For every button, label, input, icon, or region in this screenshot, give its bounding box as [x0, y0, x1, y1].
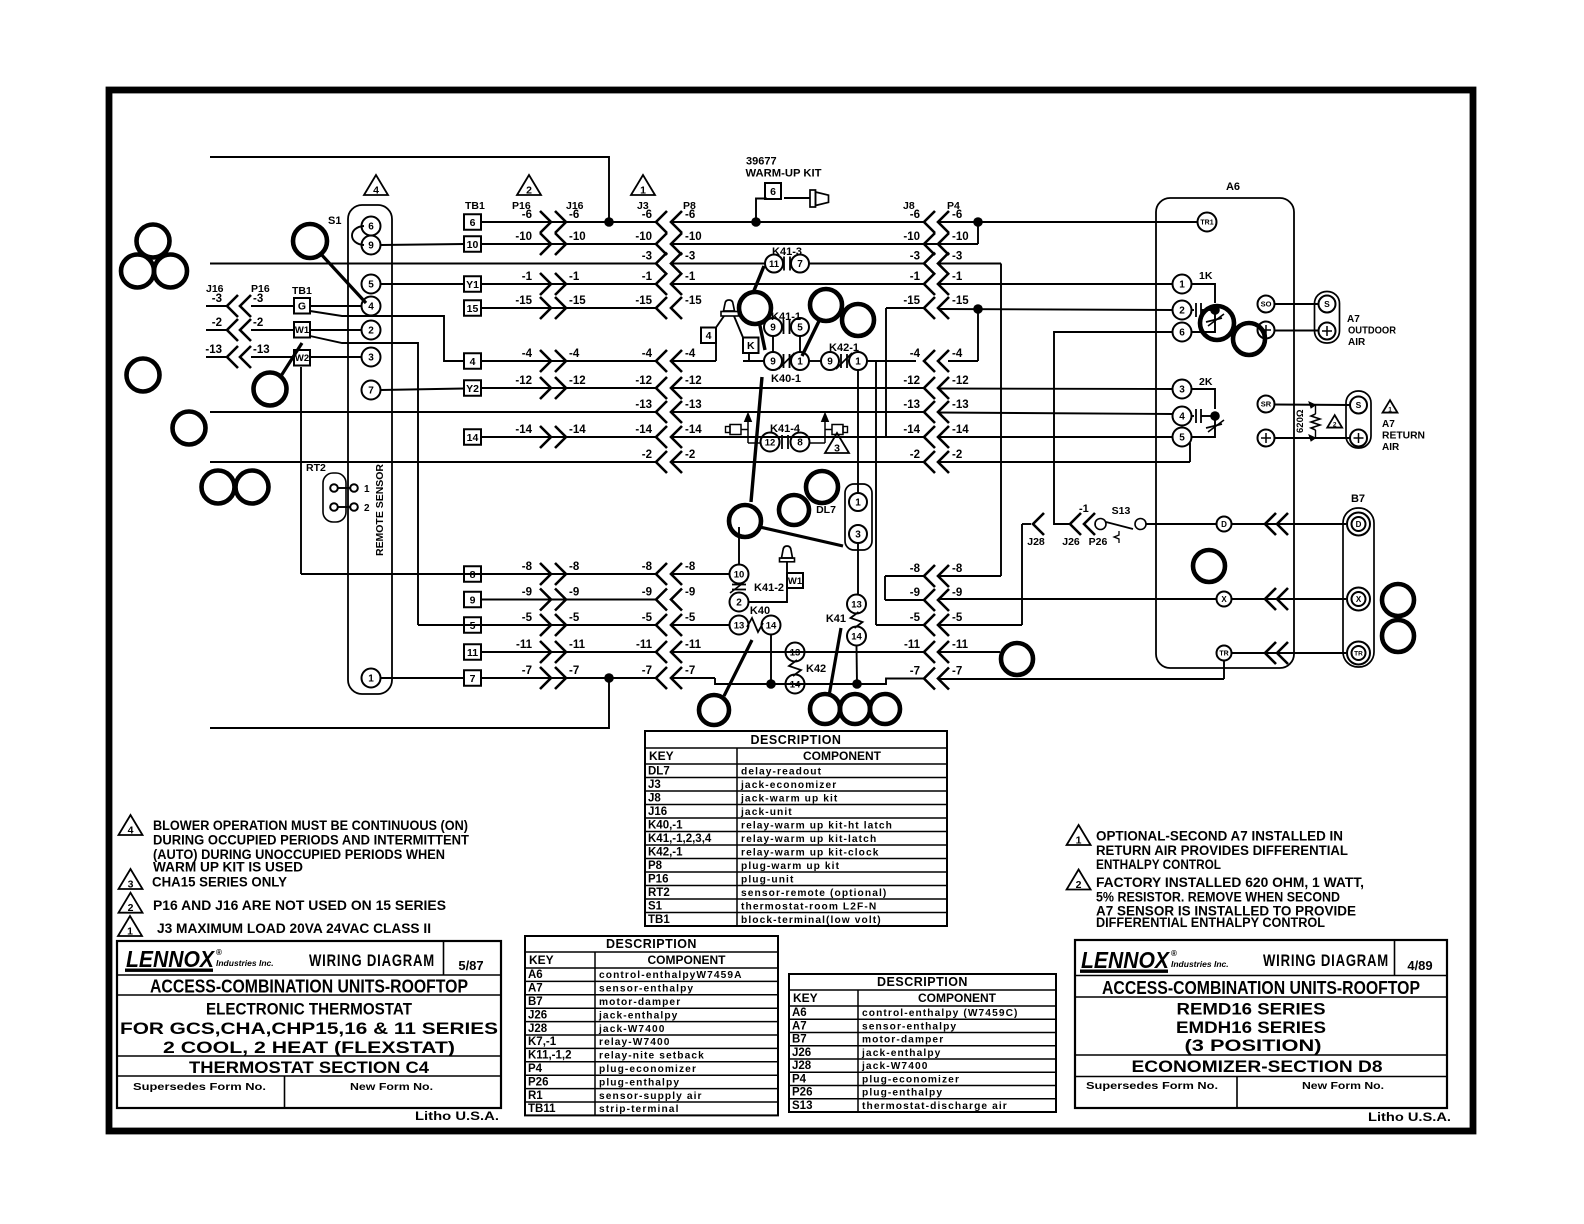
svg-text:plug-unit: plug-unit: [741, 874, 794, 885]
svg-text:-11: -11: [685, 639, 702, 651]
note triangle 3: [119, 869, 143, 889]
svg-text:K11,-1,2: K11,-1,2: [528, 1050, 571, 1062]
callout circle o: [729, 505, 761, 537]
svg-text:BLOWER OPERATION MUST BE CONTI: BLOWER OPERATION MUST BE CONTINUOUS (ON): [153, 818, 468, 833]
svg-text:-5: -5: [642, 612, 653, 624]
svg-text:S1: S1: [648, 900, 663, 912]
svg-text:DESCRIPTION: DESCRIPTION: [606, 937, 697, 951]
svg-text:(3 POSITION): (3 POSITION): [1185, 1036, 1322, 1055]
svg-text:DESCRIPTION: DESCRIPTION: [751, 733, 842, 747]
callout circle v: [1200, 306, 1234, 340]
callout circle x: [1382, 584, 1414, 616]
callout pointer j to K40-1 9: [759, 321, 765, 350]
connector J16/P16 row -3 left: [206, 305, 227, 307]
TB1 box 5: [464, 617, 481, 633]
svg-text:4: 4: [470, 356, 476, 368]
connector J3/P8 row -8: [656, 563, 667, 585]
callout circle f: [202, 471, 235, 504]
A6 terminal plus return: [1258, 430, 1275, 447]
svg-text:-10: -10: [635, 231, 652, 243]
node junction K41-14 on bus: [852, 679, 862, 689]
wire row -5: [418, 624, 656, 626]
wire row -9: [481, 599, 656, 601]
K41-4 left bracket wire: [741, 429, 748, 431]
TB1 box Y1: [464, 276, 481, 292]
TB1 box Y2: [464, 380, 481, 396]
svg-text:sensor-supply air: sensor-supply air: [599, 1091, 703, 1102]
svg-text:1: 1: [1076, 835, 1082, 847]
svg-text:2: 2: [736, 598, 742, 609]
svg-text:-13: -13: [253, 344, 270, 356]
svg-text:B7: B7: [528, 996, 543, 1008]
svg-text:THERMOSTAT SECTION C4: THERMOSTAT SECTION C4: [189, 1058, 430, 1077]
svg-text:-8: -8: [910, 563, 921, 575]
note triangle 2: [119, 893, 143, 913]
S1 terminal 7: [362, 381, 381, 400]
delay readout DL7 outline: [845, 484, 872, 550]
svg-text:K41,-1,2,3,4: K41,-1,2,3,4: [648, 833, 712, 845]
svg-text:relay-nite setback: relay-nite setback: [599, 1051, 705, 1062]
svg-text:ELECTRONIC THERMOSTAT: ELECTRONIC THERMOSTAT: [206, 1000, 413, 1019]
wire row -4: [481, 360, 656, 362]
svg-text:1: 1: [1388, 407, 1392, 414]
svg-text:-7: -7: [642, 665, 652, 677]
wire -7 right to TR: [938, 678, 1224, 680]
svg-text:620Ω: 620Ω: [1295, 409, 1306, 433]
svg-text:-11: -11: [516, 639, 533, 651]
svg-text:G: G: [298, 301, 306, 313]
svg-text:TB11: TB11: [528, 1103, 556, 1115]
svg-text:J26: J26: [1062, 536, 1080, 548]
svg-text:COMPONENT: COMPONENT: [918, 991, 997, 1005]
svg-text:-15: -15: [952, 295, 969, 307]
svg-text:15: 15: [467, 303, 479, 315]
A6 terminal TR1: [1198, 213, 1217, 232]
connector J16/P16 row -2 left: [206, 329, 227, 331]
svg-text:5: 5: [797, 323, 803, 334]
wire -8 stub J8: [885, 575, 924, 577]
A6 terminal 5: [1173, 428, 1192, 447]
TB1 box 11: [464, 644, 481, 660]
RT2 pin 2: [330, 503, 338, 511]
relay K40: [730, 616, 749, 635]
wire TR to B7: [1232, 652, 1347, 654]
svg-text:P26: P26: [792, 1087, 812, 1099]
svg-text:1: 1: [855, 498, 861, 509]
svg-text:-6: -6: [642, 209, 652, 221]
svg-text:Litho U.S.A.: Litho U.S.A.: [1368, 1112, 1451, 1124]
connector J8/P4 row -13: [924, 401, 935, 423]
svg-text:-8: -8: [522, 561, 533, 573]
wire -9 right to X: [938, 598, 1216, 600]
relay contact K41-1: [764, 318, 782, 336]
wire row -12: [481, 387, 656, 389]
svg-text:-13: -13: [685, 399, 702, 411]
callout pointer to S1-4: [320, 253, 366, 303]
connector J3/P8 row -3: [656, 253, 667, 275]
svg-text:-4: -4: [910, 348, 921, 360]
svg-text:B7: B7: [792, 1034, 807, 1046]
svg-text:-9: -9: [910, 587, 920, 599]
svg-text:jack-enthalpy: jack-enthalpy: [598, 1010, 678, 1021]
svg-text:A7: A7: [1347, 314, 1360, 325]
svg-text:7: 7: [797, 259, 803, 270]
wire S1-1 to TB1-7: [381, 677, 465, 679]
svg-text:DESCRIPTION: DESCRIPTION: [877, 975, 968, 989]
bell mid: [782, 546, 793, 558]
connector P16/J16 row -7: [540, 667, 551, 689]
svg-text:DL7: DL7: [816, 504, 836, 516]
svg-text:ENTHALPY CONTROL: ENTHALPY CONTROL: [1096, 857, 1221, 872]
connector J3/P8 row -14: [656, 426, 667, 448]
wire -15/-14 link: [885, 308, 887, 437]
TB1 box 6: [464, 214, 481, 230]
warning triangle 1 return: [1383, 400, 1398, 412]
wire -3 drop to -8: [1000, 264, 1002, 577]
plug P8 connector glyph: [784, 197, 810, 199]
svg-text:J28: J28: [1027, 536, 1045, 548]
svg-text:-2: -2: [642, 449, 652, 461]
svg-text:TR: TR: [1354, 650, 1363, 657]
svg-text:K42-1: K42-1: [829, 342, 859, 354]
svg-text:S: S: [1356, 400, 1362, 410]
svg-text:4/89: 4/89: [1407, 958, 1432, 973]
wire W1 to TB1-5 route: [310, 336, 418, 625]
svg-text:motor-damper: motor-damper: [862, 1035, 944, 1046]
connector P16/J16 row -14: [540, 426, 551, 448]
svg-text:6: 6: [770, 186, 776, 198]
table description left economizer: [525, 936, 778, 1115]
svg-text:-14: -14: [515, 424, 532, 436]
svg-text:-3: -3: [685, 251, 695, 263]
S1 terminal 2: [362, 321, 381, 340]
B7 terminal TR: [1347, 642, 1370, 665]
svg-text:-7: -7: [522, 665, 532, 677]
svg-text:2: 2: [368, 326, 374, 337]
svg-text:39677: 39677: [746, 156, 777, 168]
outer border frame: [109, 90, 1473, 1131]
wire row -1: [481, 283, 656, 285]
svg-text:delay-readout: delay-readout: [741, 766, 822, 777]
svg-text:WIRING DIAGRAM: WIRING DIAGRAM: [1263, 952, 1389, 970]
connector B7 TR: [1265, 642, 1276, 664]
svg-text:J3: J3: [648, 779, 661, 791]
svg-text:5/87: 5/87: [458, 958, 483, 973]
sensor A7 outdoor outline: [1315, 292, 1340, 344]
svg-text:-7: -7: [685, 665, 695, 677]
svg-text:-15: -15: [569, 295, 586, 307]
svg-text:ACCESS-COMBINATION UNITS-ROOFT: ACCESS-COMBINATION UNITS-ROOFTOP: [1102, 977, 1420, 998]
svg-text:-13: -13: [903, 399, 920, 411]
S1 terminal 3: [362, 348, 381, 367]
svg-text:-2: -2: [952, 449, 962, 461]
svg-text:X: X: [1356, 595, 1362, 604]
warning triangle 2 top: [517, 175, 541, 195]
svg-text:14: 14: [851, 631, 862, 642]
svg-text:J3 MAXIMUM LOAD 20VA 24VAC CLA: J3 MAXIMUM LOAD 20VA 24VAC CLASS II: [157, 921, 431, 936]
connector J8/P4 row -1: [924, 273, 935, 295]
svg-text:9: 9: [827, 357, 833, 368]
svg-text:A6: A6: [792, 1007, 807, 1019]
plug P8 box 6: [765, 183, 781, 199]
svg-text:®: ®: [216, 948, 222, 957]
svg-text:block-terminal(low volt): block-terminal(low volt): [741, 915, 882, 926]
svg-text:4: 4: [373, 185, 379, 197]
svg-text:-8: -8: [685, 561, 696, 573]
thermostat S1 outline: [348, 205, 392, 694]
svg-text:K41: K41: [826, 613, 846, 625]
svg-text:W2: W2: [295, 353, 309, 364]
TB1 box W1: [294, 322, 310, 338]
callout pointer to K40: [724, 640, 752, 696]
svg-text:-1: -1: [569, 271, 580, 283]
callout circle b: [121, 255, 154, 288]
connector J8/P4 row -14: [924, 426, 935, 448]
jack J28: [1022, 523, 1031, 525]
S1 terminal 4: [362, 297, 381, 316]
wire plus to A7: [1275, 330, 1319, 332]
svg-text:-10: -10: [515, 231, 532, 243]
svg-text:-10: -10: [952, 231, 969, 243]
svg-text:9: 9: [368, 241, 374, 252]
table description thermostat: [645, 731, 947, 926]
svg-text:TR: TR: [1219, 651, 1228, 658]
connector J3/P8 row -2: [656, 451, 667, 473]
wire row -8: [301, 573, 656, 575]
svg-text:-11: -11: [952, 639, 969, 651]
S1 terminal 1: [362, 669, 381, 688]
svg-text:1: 1: [127, 926, 133, 938]
B7 terminal D: [1347, 513, 1370, 536]
svg-text:K41-3: K41-3: [772, 246, 802, 258]
svg-text:thermostat-discharge air: thermostat-discharge air: [862, 1101, 1008, 1112]
svg-text:J16: J16: [648, 806, 667, 818]
svg-text:-1: -1: [685, 271, 696, 283]
svg-text:Industries Inc.: Industries Inc.: [1171, 959, 1229, 969]
svg-text:K: K: [747, 340, 755, 352]
connector J3/P8 row -5: [656, 614, 667, 636]
svg-text:-13: -13: [952, 399, 969, 411]
svg-text:2 COOL, 2 HEAT (FLEXSTAT): 2 COOL, 2 HEAT (FLEXSTAT): [163, 1038, 455, 1057]
connector J8/P4 row -3: [924, 253, 935, 275]
connector P16/J16 row -9: [540, 589, 551, 611]
svg-text:-2: -2: [910, 449, 920, 461]
S1 6-9 link arc: [352, 226, 364, 245]
warning triangle 1 top: [631, 175, 655, 195]
svg-text:DIFFERENTIAL ENTHALPY CONTROL: DIFFERENTIAL ENTHALPY CONTROL: [1096, 915, 1325, 930]
svg-text:5% RESISTOR. REMOVE WHEN SECON: 5% RESISTOR. REMOVE WHEN SECOND: [1096, 890, 1340, 905]
svg-text:-14: -14: [569, 424, 586, 436]
svg-text:WARM-UP KIT: WARM-UP KIT: [746, 168, 822, 180]
title block right: [1075, 940, 1447, 1108]
svg-text:jack-economizer: jack-economizer: [740, 780, 837, 791]
svg-text:J28: J28: [792, 1060, 812, 1072]
svg-text:AIR: AIR: [1382, 442, 1400, 453]
A6 terminal SO: [1258, 296, 1275, 313]
svg-text:1: 1: [364, 484, 370, 495]
wire row -6: [481, 221, 656, 223]
relay contact K40-1: [764, 352, 782, 370]
svg-text:LENNOX: LENNOX: [126, 946, 216, 972]
svg-text:13: 13: [790, 647, 801, 658]
svg-text:K40-1: K40-1: [771, 373, 801, 385]
svg-text:-9: -9: [642, 587, 652, 599]
svg-text:6: 6: [1179, 328, 1185, 339]
A6 terminal D: [1217, 517, 1232, 532]
wire -4 riser to -15: [977, 309, 979, 361]
svg-text:S1: S1: [328, 215, 341, 227]
callout circle j: [739, 292, 771, 324]
svg-text:-7: -7: [952, 666, 962, 678]
svg-text:-4: -4: [642, 348, 653, 360]
svg-text:WIRING DIAGRAM: WIRING DIAGRAM: [309, 952, 435, 970]
wire S13 to D: [1146, 523, 1217, 525]
connector J3/P8 row -9: [656, 589, 667, 611]
svg-text:-11: -11: [636, 639, 653, 651]
svg-text:K41-2: K41-2: [754, 582, 784, 594]
connector P16/J16 row -11: [540, 641, 551, 663]
svg-text:-12: -12: [635, 375, 652, 387]
svg-text:-15: -15: [515, 295, 532, 307]
callout circle c: [154, 255, 187, 288]
TB1 box 7: [464, 670, 481, 686]
svg-text:relay-warm up kit-clock: relay-warm up kit-clock: [741, 847, 880, 858]
callout pointer to DL7: [760, 527, 843, 546]
wire K42-1 to DL7: [857, 370, 859, 493]
wire -4/-5 link vertical: [875, 361, 877, 625]
DL7 terminal 3: [849, 525, 867, 543]
svg-text:-4: -4: [569, 348, 580, 360]
callout circle k: [810, 289, 842, 321]
svg-text:7: 7: [470, 673, 476, 685]
connector J3/P8 row -13: [656, 401, 667, 423]
wire box6 to junction: [756, 199, 767, 223]
B7 terminal X: [1347, 588, 1370, 611]
TB1 box 10: [464, 236, 481, 252]
svg-text:9: 9: [470, 594, 476, 606]
svg-text:7: 7: [368, 386, 374, 397]
svg-text:3: 3: [128, 879, 134, 891]
wire row -14: [481, 436, 656, 438]
svg-text:-9: -9: [522, 587, 532, 599]
svg-text:1K: 1K: [1199, 270, 1213, 282]
svg-text:P4: P4: [792, 1073, 807, 1085]
node junction K40-14 on bus: [766, 679, 776, 689]
svg-text:-3: -3: [212, 293, 222, 305]
wire X to B7: [1232, 598, 1347, 600]
svg-text:TB1: TB1: [648, 914, 670, 926]
connector P16/J16 row -4: [540, 350, 551, 372]
svg-text:S13: S13: [792, 1100, 812, 1112]
svg-text:2: 2: [128, 902, 134, 914]
svg-text:K7,-1: K7,-1: [528, 1036, 557, 1048]
wire K41-2 upper stub: [738, 527, 740, 564]
svg-text:10: 10: [467, 239, 479, 251]
svg-text:Supersedes Form No.: Supersedes Form No.: [1086, 1080, 1218, 1092]
svg-text:10: 10: [734, 569, 745, 580]
svg-text:9: 9: [770, 357, 776, 368]
wire row -13: [210, 411, 656, 413]
callout pointer to K41: [829, 628, 841, 696]
TB1 box 14: [464, 429, 481, 445]
wire G to TB1-4 route: [310, 311, 464, 361]
wire row -7: [481, 677, 656, 679]
svg-text:motor-damper: motor-damper: [599, 997, 681, 1008]
note triangle 2 right: [1067, 870, 1091, 890]
svg-text:OUTDOOR: OUTDOOR: [1348, 326, 1397, 337]
A6 terminal 4: [1173, 407, 1192, 426]
A7 outdoor plus: [1319, 323, 1336, 340]
svg-text:jack-W7400: jack-W7400: [598, 1024, 666, 1035]
A6 terminal 2: [1173, 301, 1192, 320]
svg-text:-10: -10: [569, 231, 586, 243]
svg-text:-5: -5: [685, 612, 696, 624]
svg-text:relay-warm up kit-latch: relay-warm up kit-latch: [741, 834, 877, 845]
svg-text:P16 AND J16 ARE NOT USED ON 15: P16 AND J16 ARE NOT USED ON 15 SERIES: [153, 898, 446, 913]
svg-text:-1: -1: [522, 271, 533, 283]
connector J3/P8 row -10: [656, 233, 667, 255]
connector P16/J16 row -15: [540, 297, 551, 319]
switch S13: [1095, 523, 1096, 525]
svg-text:4: 4: [368, 302, 374, 313]
TB1 box 9: [464, 592, 481, 608]
svg-text:K42,-1: K42,-1: [648, 846, 683, 858]
A6 terminal X: [1217, 592, 1232, 607]
wire S1-7 to TB1-Y2: [381, 389, 465, 391]
connector J3/P8 row -6: [656, 211, 667, 233]
svg-text:8: 8: [470, 569, 476, 581]
note triangle 1: [118, 916, 142, 936]
wire top rail: [210, 157, 609, 222]
svg-text:-5: -5: [910, 612, 921, 624]
connector J8/P4 row -5: [924, 614, 935, 636]
svg-text:REMOTE SENSOR: REMOTE SENSOR: [374, 464, 386, 556]
wire bell to W1: [786, 562, 788, 573]
svg-text:-12: -12: [569, 375, 586, 387]
RT2 pin 1: [330, 484, 338, 492]
svg-text:-5: -5: [569, 612, 580, 624]
connector P16/J16 row -10: [540, 233, 551, 255]
svg-text:plug-economizer: plug-economizer: [599, 1064, 697, 1075]
callout circle m: [806, 471, 838, 503]
svg-text:-12: -12: [903, 375, 920, 387]
svg-text:jack-warm up kit: jack-warm up kit: [740, 793, 838, 804]
svg-text:SO: SO: [1261, 300, 1272, 309]
wire -5 right riser to J28: [938, 624, 1022, 626]
K41-4 right plug: [843, 427, 848, 433]
A7 outdoor S: [1319, 296, 1336, 313]
connector J3/P8 row -11: [656, 641, 667, 663]
svg-text:control-enthalpy (W7459C): control-enthalpy (W7459C): [862, 1008, 1019, 1019]
wire -2 riser to A6-5: [1189, 443, 1191, 462]
svg-text:1: 1: [797, 357, 803, 368]
callout circle p: [699, 695, 729, 725]
svg-text:1: 1: [368, 674, 374, 685]
relay K41: [847, 595, 866, 614]
connector B7 X: [1265, 588, 1276, 610]
connector P16/J16 row -6: [540, 211, 551, 233]
note triangle 4: [119, 815, 143, 835]
wire DL7 to K41: [857, 543, 859, 595]
warning triangle 2 return: [1327, 415, 1342, 427]
callout circle w: [1233, 323, 1265, 355]
callout circle e: [173, 412, 206, 445]
svg-text:COMPONENT: COMPONENT: [648, 953, 727, 967]
svg-text:OPTIONAL-SECOND A7 INSTALLED I: OPTIONAL-SECOND A7 INSTALLED IN: [1096, 829, 1343, 844]
svg-text:relay-warm up kit-ht latch: relay-warm up kit-ht latch: [741, 820, 893, 831]
svg-text:4: 4: [706, 330, 712, 342]
wire row -10: [481, 243, 656, 245]
